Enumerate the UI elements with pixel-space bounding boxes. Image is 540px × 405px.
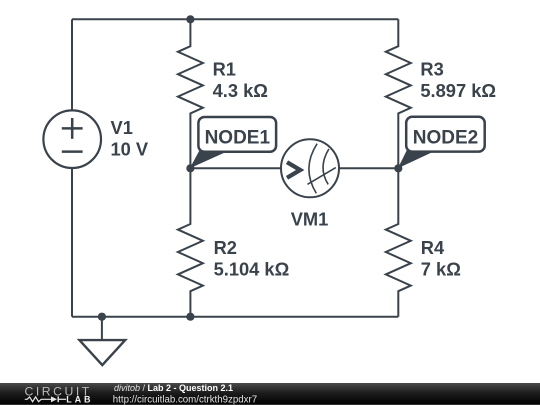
junction dot bottom (R2/bottom wire) [186, 313, 194, 321]
node NODE2 flag box [406, 117, 485, 152]
node NODE1 junction dot [186, 164, 194, 172]
ground stem wire [101, 317, 103, 340]
resistor R2 [178, 168, 203, 316]
svg-text:V1: V1 [111, 117, 133, 138]
V1 minus sign [62, 150, 83, 153]
VM1 needle [308, 168, 336, 185]
node NODE1 flag pointer [190, 150, 231, 169]
svg-text:R2: R2 [214, 237, 237, 258]
junction dot ground [98, 313, 106, 321]
resistor R3 [386, 19, 411, 168]
svg-text:7 kΩ: 7 kΩ [421, 258, 461, 279]
resistor R1 [178, 19, 203, 168]
wire left vertical upper (V1 top lead) [71, 19, 73, 110]
wire bottom horizontal [72, 316, 398, 318]
svg-text:R1: R1 [213, 58, 236, 79]
svg-text:http://circuitlab.com/ctrkth9z: http://circuitlab.com/ctrkth9zpdxr7 [113, 395, 257, 405]
svg-text:5.104 kΩ: 5.104 kΩ [214, 258, 290, 279]
wire middle right (voltmeter to NODE2) [339, 167, 398, 169]
node NODE2 flag pointer [398, 150, 437, 168]
voltmeter VM1 [281, 139, 339, 197]
wire middle left (NODE1 to voltmeter) [190, 167, 281, 169]
VM1 chevron [287, 162, 300, 178]
svg-text:R4: R4 [421, 237, 445, 258]
footer logo diode [51, 396, 57, 402]
wire top horizontal [72, 18, 398, 20]
node NODE1 flag box [198, 117, 276, 152]
svg-text:NODE2: NODE2 [413, 127, 478, 148]
node NODE2 junction dot [394, 164, 402, 172]
footer bar [0, 383, 540, 405]
svg-text:LAB: LAB [66, 394, 93, 404]
svg-text:5.897 kΩ: 5.897 kΩ [420, 80, 496, 101]
svg-text:NODE1: NODE1 [205, 128, 271, 149]
junction dot top (R1/top wire) [186, 15, 194, 23]
footer bottom edge line [0, 404, 540, 405]
svg-text:VM1: VM1 [291, 209, 329, 230]
svg-text:divitob / Lab 2 - Question 2.1: divitob / Lab 2 - Question 2.1 [114, 383, 233, 393]
voltage source V1 [43, 110, 101, 168]
svg-text:4.3 kΩ: 4.3 kΩ [213, 80, 268, 101]
svg-text:10 V: 10 V [111, 139, 149, 160]
ground [79, 340, 125, 365]
footer logo resistor squiggle [25, 397, 51, 402]
VM1 meter arcs [308, 144, 336, 194]
resistor R4 [386, 168, 411, 316]
wire left vertical lower (V1 bottom lead) [71, 168, 73, 317]
svg-text:R3: R3 [420, 58, 443, 79]
V1 plus sign [62, 118, 83, 152]
